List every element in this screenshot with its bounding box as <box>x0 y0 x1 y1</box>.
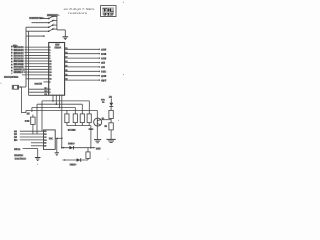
svg-text:4 SPST SW: 4 SPST SW <box>29 16 44 20</box>
pin 10 U1 <box>49 60 51 62</box>
svg-text:DP in: DP in <box>14 148 21 151</box>
ground (R6) <box>107 138 116 140</box>
node ID7 label <box>14 46 24 48</box>
pin 27 U1 <box>65 65 67 67</box>
speck <box>108 159 109 160</box>
svg-text:EN: EN <box>14 139 18 142</box>
diode D2 1N914 <box>69 146 73 150</box>
svg-text:+5: +5 <box>27 112 31 116</box>
wire segment b <box>65 53 99 55</box>
wire bus A <box>42 100 89 102</box>
wire: U1 bottom pin stub 2 <box>55 95 57 104</box>
wire to ground G2 <box>37 149 39 158</box>
ground (switch bank) <box>62 36 68 38</box>
svg-text:F6: F6 <box>44 146 47 148</box>
node ID5 label <box>14 52 24 54</box>
wire ID0 <box>25 66 49 68</box>
op: main IC U1 ICM7218 <box>49 43 65 96</box>
svg-text:4× 150: 4× 150 <box>68 129 76 132</box>
resistor R6 <box>109 123 113 130</box>
pin 24 U1 <box>65 78 67 80</box>
switch S1d wire <box>26 30 49 32</box>
wire Q1 collector <box>96 110 98 118</box>
crystal Y1 <box>11 85 13 90</box>
wire U2 pin 6 <box>31 145 44 147</box>
pin 6 U1 <box>49 49 50 51</box>
wire segment d <box>65 62 99 64</box>
pin 3 U1 <box>49 91 50 93</box>
wire MODE <box>25 71 49 73</box>
wire bus B <box>37 103 82 105</box>
switch S1b wire <box>32 22 49 24</box>
wire bus C <box>32 107 75 109</box>
svg-text:e 5: e 5 <box>101 66 105 69</box>
resistor R2 <box>73 114 77 123</box>
svg-text:osc 16: osc 16 <box>35 83 43 86</box>
wire U2 output <box>55 137 62 139</box>
svg-text:E5: E5 <box>44 143 47 145</box>
svg-text:11: 11 <box>49 64 52 66</box>
node +5 <box>27 112 30 114</box>
svg-text:312: 312 <box>103 11 115 16</box>
label 4x150 <box>68 129 76 131</box>
switch common bus wire <box>56 16 58 30</box>
wire: display test line <box>26 35 44 37</box>
wire: U1 bottom long drop <box>61 95 63 148</box>
pin 3 U2 <box>44 136 46 138</box>
svg-text:1 to Test: 1 to Test <box>15 158 25 161</box>
switch S1b <box>48 22 50 24</box>
ground G2 <box>35 157 41 159</box>
transistor Q1 <box>94 118 102 126</box>
svg-text:from µP bus: from µP bus <box>4 76 19 79</box>
wire bus E (resistor commons) <box>67 125 91 127</box>
pin 19 U1 <box>65 47 67 49</box>
svg-text:16: 16 <box>49 79 52 81</box>
svg-text:1N914: 1N914 <box>68 142 75 145</box>
svg-text:b 16: b 16 <box>101 53 107 56</box>
speck <box>123 2 124 3</box>
wire U2 branch to ground <box>56 138 58 152</box>
pin 17 U1 <box>65 56 67 58</box>
svg-text:+5: +5 <box>109 95 113 99</box>
pin 2 U2 <box>44 133 46 135</box>
svg-text:1k: 1k <box>104 125 107 128</box>
wire U2 pin 4 <box>20 139 44 141</box>
resistor R8 4.7k <box>32 115 34 118</box>
wire: test line <box>63 159 89 161</box>
wire ID2 <box>25 60 49 62</box>
node b <box>101 53 106 55</box>
node MODE label <box>14 71 23 73</box>
label: 4 SPST SW <box>29 17 42 19</box>
wire: bus E drop <box>90 126 92 148</box>
pin 25 U1 <box>65 74 67 76</box>
svg-text:dp 7: dp 7 <box>101 79 107 82</box>
svg-text:c 13: c 13 <box>101 57 106 60</box>
pin 5 U1 <box>49 46 50 48</box>
wire ID5 <box>25 52 49 54</box>
wire: switch bus to ground <box>57 29 65 31</box>
pin 1 U2 <box>44 131 46 133</box>
pin 6 U2 <box>44 145 46 147</box>
label osc <box>34 83 41 85</box>
wire Q1 emitter to ground <box>96 126 98 139</box>
wire +5 stub <box>110 98 112 102</box>
pin 12 U1 <box>49 66 51 68</box>
svg-text:1N914: 1N914 <box>70 163 77 166</box>
wire DP row <box>23 148 38 150</box>
wire R6 to ground <box>110 130 112 139</box>
note bottom left <box>14 154 23 156</box>
wire node: R5/R6/base <box>110 119 112 123</box>
speck <box>118 120 119 121</box>
node A1 label <box>14 133 17 135</box>
label J1 bottom <box>4 76 18 78</box>
label DA <box>44 93 46 95</box>
node a <box>101 49 106 51</box>
wire to +5V <box>91 147 95 149</box>
resistor R1 <box>65 114 69 123</box>
diode D3 1N914 <box>77 158 81 162</box>
ground (U2 branch) <box>55 152 59 154</box>
wire segment a <box>65 48 99 50</box>
svg-text:WR: WR <box>44 91 48 93</box>
wire: U1 bottom pin stub 1 <box>52 95 54 101</box>
svg-text:DA: DA <box>44 93 48 96</box>
wire MO <box>29 88 49 90</box>
switch S1a wire <box>40 18 49 20</box>
wire DA <box>29 94 49 96</box>
svg-text:d 3: d 3 <box>101 62 105 65</box>
svg-text:8: 8 <box>49 55 51 57</box>
pin 13 U1 <box>49 69 51 71</box>
svg-text:3: 3 <box>49 92 51 94</box>
wire rail A <box>25 27 27 87</box>
svg-text:1: 1 <box>53 15 54 17</box>
wire segment c <box>65 57 99 59</box>
label WR <box>44 90 46 92</box>
switch S1c <box>48 26 50 28</box>
svg-text:74C: 74C <box>49 137 54 140</box>
svg-text:6: 6 <box>49 50 51 52</box>
node f <box>101 71 106 73</box>
node +5 (top right) <box>109 96 112 98</box>
svg-text:g 15: g 15 <box>101 75 107 78</box>
switch S1d <box>48 30 50 32</box>
speck <box>37 164 38 165</box>
label 2N2222 <box>89 128 93 130</box>
svg-text:a 14: a 14 <box>101 49 106 52</box>
svg-text:2: 2 <box>49 89 51 91</box>
svg-text:MO: MO <box>44 88 48 90</box>
pin 18 U1 <box>65 52 67 54</box>
svg-text:resistors: resistors <box>68 11 88 15</box>
svg-text:2: 2 <box>53 19 54 21</box>
wire U2 pin 2 <box>20 133 44 135</box>
node ID6 label <box>14 49 24 51</box>
svg-text:+5V: +5V <box>96 147 101 151</box>
node A0 label <box>14 130 17 132</box>
pin 9 U1 <box>49 57 50 59</box>
pin 1 U1 <box>49 81 50 83</box>
wire R2 bottom lead <box>74 123 76 126</box>
node EN label <box>14 139 17 141</box>
svg-text:B2: B2 <box>44 134 47 136</box>
wire ID7 <box>25 46 49 48</box>
wire segment dp <box>65 79 99 81</box>
svg-text:f 11: f 11 <box>101 71 106 74</box>
pin 4 U2 <box>44 139 46 141</box>
wire ID3 <box>25 57 49 59</box>
wire ID1 <box>25 63 49 65</box>
svg-text:13: 13 <box>49 69 52 71</box>
svg-text:4: 4 <box>53 27 54 29</box>
wire rail B <box>28 31 30 95</box>
svg-text:7: 7 <box>49 53 51 55</box>
node +5V <box>96 147 100 149</box>
node ID3 label <box>14 57 24 59</box>
node g <box>101 75 106 77</box>
svg-text:12: 12 <box>49 66 52 68</box>
node WRITE label <box>14 68 24 70</box>
wire row 11 <box>22 74 49 76</box>
wire R3 bottom lead <box>81 123 83 126</box>
wire ID6 <box>25 49 49 51</box>
svg-text:D4: D4 <box>44 139 47 142</box>
pin 14 U1 <box>49 71 51 73</box>
node d <box>101 62 105 64</box>
resistor R3 <box>80 114 84 123</box>
wire osc <box>44 81 49 83</box>
svg-text:A1: A1 <box>44 130 47 133</box>
wire: blanking line <box>62 147 91 149</box>
wire segment g <box>65 75 99 77</box>
wire: U1 bottom pin stub 3 <box>59 95 61 107</box>
speck <box>123 74 124 75</box>
svg-text:10: 10 <box>49 61 52 63</box>
wire U2 pin 5 <box>31 142 44 144</box>
svg-text:9: 9 <box>49 58 51 60</box>
svg-text:4.7k: 4.7k <box>25 120 30 123</box>
resistor R4 <box>87 114 91 123</box>
svg-text:MODE 14: MODE 14 <box>14 71 26 74</box>
label MO <box>44 87 46 89</box>
svg-text:2N22: 2N22 <box>89 129 95 131</box>
wire: +5 feed rail down <box>20 87 22 113</box>
resistor R7 <box>87 148 89 152</box>
wire U2 pin 3 <box>20 136 44 138</box>
op: IC U2 74C48 <box>44 130 56 150</box>
node e <box>101 66 105 68</box>
node DP label <box>14 148 20 150</box>
wire D1 to R5 <box>110 106 112 110</box>
pin 15 U1 <box>49 74 51 76</box>
pin 16 U1 <box>49 78 51 80</box>
label: dimmers <box>47 14 58 17</box>
wire bus D <box>26 109 97 111</box>
wire WR <box>29 91 49 93</box>
wire R1 bottom lead <box>66 123 68 126</box>
switch S1c wire <box>26 26 49 28</box>
node dp <box>101 79 106 81</box>
wire ID4 <box>25 54 49 56</box>
svg-text:14: 14 <box>49 71 52 74</box>
svg-text:15: 15 <box>49 75 52 77</box>
wire WRITE <box>25 68 49 70</box>
node ID0 label <box>14 66 24 68</box>
svg-text:5: 5 <box>49 47 51 49</box>
svg-text:C3: C3 <box>44 137 47 139</box>
pin 28 U1 <box>65 60 67 62</box>
node A2 label <box>14 136 17 138</box>
pin 11 U1 <box>49 63 51 65</box>
switch S1a <box>48 18 50 20</box>
wire segment e <box>65 66 99 68</box>
wire row 12 <box>26 78 49 80</box>
node ID2 label <box>14 60 24 62</box>
resistor R5 <box>109 110 113 118</box>
connector J1 (dashed) <box>11 46 13 74</box>
node ID4 label <box>14 55 24 57</box>
pin 26 U1 <box>65 69 67 71</box>
node ID1 label <box>14 63 24 65</box>
pin 8 U1 <box>49 55 50 57</box>
wire: R8 to U2 <box>32 124 34 134</box>
wire: crystal to rail <box>19 86 26 88</box>
pin 2 U1 <box>49 88 50 90</box>
wire R4 bottom lead <box>88 123 90 126</box>
svg-text:1: 1 <box>49 82 51 84</box>
ground (Q1) <box>94 139 101 141</box>
diode D1 1N914 <box>109 103 113 106</box>
svg-text:7218A: 7218A <box>54 46 61 49</box>
wire U2 pin 1 <box>20 130 44 132</box>
svg-text:5: 5 <box>0 83 2 85</box>
svg-text:3: 3 <box>53 23 54 25</box>
display module DS1 (TIL312) <box>101 6 116 17</box>
label J1 top <box>13 44 17 46</box>
pin 5 U2 <box>44 142 46 144</box>
node c <box>101 57 106 59</box>
pin 7 U1 <box>49 52 50 54</box>
wire segment f <box>65 70 99 72</box>
